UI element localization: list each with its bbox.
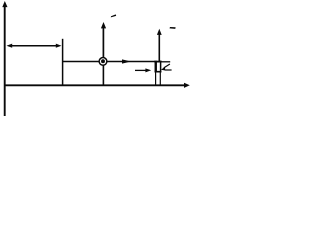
label dash (dF) bbox=[170, 27, 176, 29]
centroid symbol (circle with dot) bbox=[99, 58, 107, 66]
dimension extension line at x=62.6 bbox=[62, 39, 64, 85]
x-axis bbox=[4, 83, 190, 88]
differential force arrow above strip bbox=[157, 29, 162, 61]
label dash (resultant) bbox=[111, 14, 116, 17]
differential strip element bbox=[154, 61, 161, 85]
dx leader arrow, left side bbox=[135, 68, 151, 72]
dimension double arrow (x-bar) bbox=[7, 44, 62, 48]
vertical line through centroid down to x-axis bbox=[102, 62, 104, 86]
short line right of strip at ybar level bbox=[162, 61, 171, 63]
dx leader arrow, right side (diagonal with horizontal tail) bbox=[161, 64, 172, 71]
y-axis bbox=[2, 1, 7, 116]
horizontal centroid line y=ybar with mid arrowhead bbox=[63, 59, 155, 63]
resultant force arrow above centroid bbox=[101, 22, 106, 58]
